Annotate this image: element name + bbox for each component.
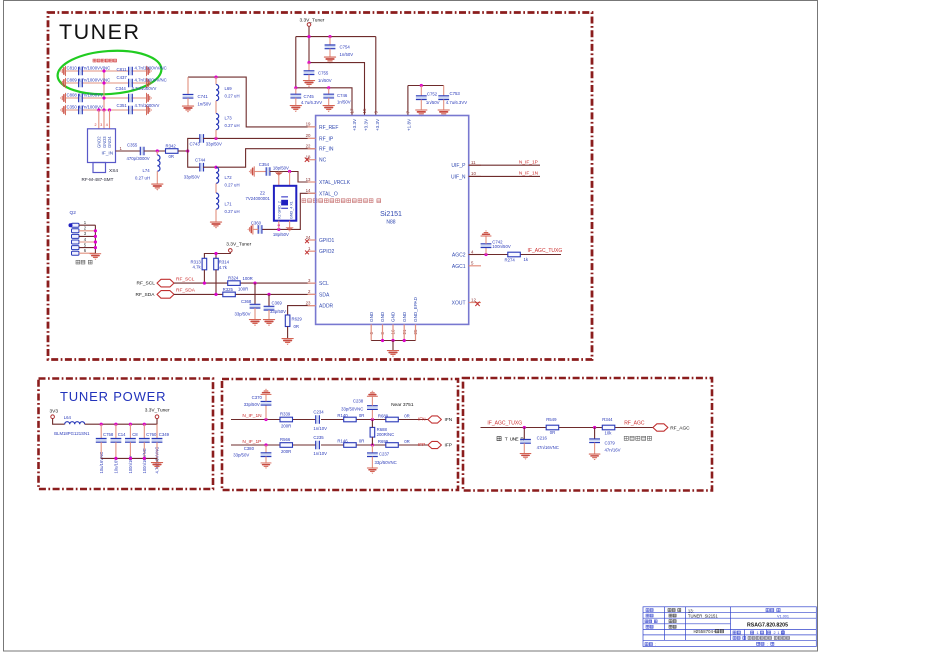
wire X2 pin [278, 221, 280, 230]
svg-text:1k: 1k [524, 257, 529, 262]
junction [214, 76, 217, 79]
junction [327, 86, 330, 89]
svg-text:R140: R140 [337, 413, 348, 418]
svg-text:N_IF_1P: N_IF_1P [519, 159, 538, 165]
svg-text:5: 5 [471, 261, 474, 266]
svg-text:R342: R342 [166, 143, 177, 148]
svg-text:C237: C237 [379, 451, 390, 456]
wire X1 pin [289, 172, 291, 186]
capacitor C369 [268, 294, 270, 306]
wire cap row 4 [66, 109, 146, 111]
svg-text:R629: R629 [292, 316, 303, 321]
resistor R344 [602, 425, 615, 430]
svg-text:UIF_P: UIF_P [451, 163, 466, 169]
svg-text:3: 3 [100, 123, 102, 127]
svg-text:33p/50VNC: 33p/50VNC [375, 460, 397, 465]
capacitor C237 [371, 445, 373, 453]
svg-text:IF_AGC_TUXG: IF_AGC_TUXG [487, 420, 522, 426]
svg-text:L72: L72 [225, 175, 233, 180]
capacitor C746 [328, 88, 330, 94]
ground C379 [589, 454, 600, 460]
svg-text:4.7k: 4.7k [193, 264, 202, 269]
svg-text:33p/50V: 33p/50V [233, 453, 249, 458]
svg-text:L69: L69 [225, 86, 233, 91]
ground C370 inverted [261, 389, 271, 395]
inductor L73 [216, 114, 219, 130]
svg-text:R566: R566 [280, 437, 291, 442]
ground left row 3 [60, 93, 65, 103]
svg-text:E: E [515, 437, 518, 443]
ground C380 [261, 463, 271, 469]
svg-text:3.3V_Tuner: 3.3V_Tuner [226, 242, 251, 248]
svg-text:R699: R699 [378, 439, 389, 444]
junction [97, 108, 100, 111]
svg-text:C811: C811 [117, 67, 128, 72]
ground right row 3 [147, 93, 152, 103]
svg-text::: : [767, 642, 768, 646]
svg-text:33p/50V: 33p/50V [235, 312, 251, 317]
svg-text:4: 4 [84, 237, 87, 242]
ground C746 [323, 106, 334, 112]
junction [143, 457, 146, 460]
ground C754 [324, 57, 335, 63]
title block stage [733, 631, 740, 634]
note shield [76, 260, 92, 264]
junction [264, 443, 267, 446]
svg-text:470p/3000V: 470p/3000V [127, 156, 150, 161]
capacitor C808 [79, 94, 83, 103]
ground C755 [303, 81, 314, 87]
junction [278, 224, 280, 226]
connector Q2 pin 4 [72, 240, 80, 244]
svg-text:IFP: IFP [418, 442, 425, 448]
svg-text:N_IF_1P: N_IF_1P [242, 439, 261, 445]
wire 3.3V vertical [308, 26, 310, 62]
wire C744 to chip [203, 149, 316, 168]
junction [114, 423, 117, 426]
resistor R324 [228, 281, 241, 286]
junction [129, 423, 132, 426]
svg-text:RF_SDA: RF_SDA [136, 292, 156, 298]
svg-text:RF_SCL: RF_SCL [137, 281, 156, 287]
capacitor C741 [187, 77, 189, 94]
connector Q2 pin 1 [72, 223, 80, 227]
junction [288, 170, 291, 173]
capacitor C752 [420, 86, 422, 96]
svg-text:1: 1 [84, 220, 87, 225]
svg-text:200R/NC: 200R/NC [377, 432, 395, 437]
svg-text:RF_AGC: RF_AGC [670, 426, 690, 432]
wire power bus [85, 419, 157, 425]
svg-text:0R: 0R [404, 413, 410, 418]
svg-text:R325: R325 [223, 287, 234, 292]
resistor R629 [285, 315, 290, 327]
svg-text:2: 2 [774, 631, 776, 635]
svg-text:IFN: IFN [418, 417, 426, 423]
junction [214, 293, 217, 296]
svg-text:C760: C760 [146, 432, 157, 437]
svg-text:C235: C235 [313, 435, 324, 440]
junction [129, 457, 132, 460]
svg-text:4: 4 [471, 249, 474, 254]
ground C369 [263, 320, 274, 326]
port IFP [428, 441, 442, 448]
svg-text:RSAG7.820.8205: RSAG7.820.8205 [747, 622, 788, 628]
power node circle [51, 415, 55, 419]
capacitor C810 [79, 67, 83, 76]
svg-text:RF_IN: RF_IN [319, 147, 334, 153]
svg-text:15: 15 [362, 108, 367, 113]
wire N_IF_1N [231, 419, 280, 421]
svg-text:1n/10V: 1n/10V [313, 451, 327, 456]
junction [253, 282, 256, 285]
svg-text:200R: 200R [281, 424, 291, 429]
inductor L74 [156, 151, 158, 155]
svg-text:RF_SCL: RF_SCL [176, 276, 195, 282]
resistor R140 [344, 417, 357, 422]
junction [214, 137, 217, 140]
ground chip [387, 351, 398, 357]
svg-text:IF_AGC_TUXG: IF_AGC_TUXG [528, 248, 563, 254]
svg-text:GND: GND [380, 311, 385, 322]
svg-text:GND: GND [402, 311, 407, 322]
svg-text:10: 10 [471, 171, 476, 176]
junction [102, 96, 105, 99]
ground C741 [182, 106, 193, 112]
svg-text:1n/50V: 1n/50V [337, 100, 351, 105]
capacitor C370 [265, 405, 267, 420]
ground C742 inverted [481, 230, 491, 236]
svg-text:Z2: Z2 [260, 190, 266, 195]
svg-text:10u/16V: 10u/16V [114, 458, 119, 474]
junction [102, 69, 105, 72]
svg-text:10k: 10k [605, 430, 613, 435]
svg-text:4.7k: 4.7k [219, 265, 228, 270]
svg-text:C808 4.7n/1000VV: C808 4.7n/1000VV [67, 93, 103, 98]
svg-text:100n/50V: 100n/50V [492, 244, 511, 249]
svg-text:14: 14 [306, 188, 311, 193]
resistor R566 [280, 443, 293, 448]
svg-text:1: 1 [777, 631, 779, 635]
junction [94, 235, 97, 238]
junction [420, 84, 423, 87]
wire SDA [174, 293, 223, 295]
svg-text:UIF_N: UIF_N [451, 174, 466, 180]
svg-text:5: 5 [84, 242, 87, 247]
svg-text:L74: L74 [143, 168, 151, 173]
svg-text:19: 19 [306, 122, 311, 127]
junction [307, 35, 310, 38]
resistor R699 [386, 443, 399, 448]
svg-text:RF-M-487-SMT: RF-M-487-SMT [82, 177, 114, 182]
svg-text:GND: GND [391, 311, 396, 322]
svg-text:C354: C354 [259, 162, 270, 167]
junction [277, 228, 280, 231]
capacitor C811 [129, 67, 133, 76]
wire R688 [371, 420, 373, 428]
svg-text:Q2: Q2 [70, 210, 77, 216]
wire AGC2 [469, 254, 508, 256]
no-connect GPIO1 [305, 239, 309, 243]
svg-text:1: 1 [757, 631, 759, 635]
port RF_AGC [653, 424, 668, 431]
svg-text::: : [655, 643, 656, 647]
wire UIF_N [469, 175, 540, 177]
svg-text:0.27 uH: 0.27 uH [225, 123, 240, 128]
svg-text:0R: 0R [169, 154, 175, 159]
svg-text:R549: R549 [546, 417, 557, 422]
svg-text:4.7n/1000VV: 4.7n/1000VV [132, 86, 157, 91]
svg-text:1: 1 [120, 146, 123, 151]
svg-text:2: 2 [308, 289, 311, 294]
svg-text:0R: 0R [550, 430, 556, 435]
svg-text:N_IF_1N: N_IF_1N [519, 171, 539, 177]
capacitor C354 [259, 162, 289, 176]
wire power gnd bus [101, 457, 157, 459]
svg-text:RF_IP: RF_IP [319, 136, 334, 142]
wire SCL [174, 282, 228, 284]
svg-text:20: 20 [306, 133, 311, 138]
wire RF_IP branch [188, 138, 200, 151]
note keep four capacitors [93, 59, 117, 62]
capacitor C753 [443, 86, 445, 96]
capacitor C350 [79, 106, 83, 115]
junction [307, 61, 310, 64]
svg-text:C379: C379 [605, 441, 616, 446]
svg-text:C368: C368 [241, 299, 252, 304]
svg-text:7V24000001: 7V24000001 [246, 196, 271, 201]
svg-text:+1.8V: +1.8V [407, 118, 412, 131]
wire center column [103, 71, 105, 110]
note near main chip [624, 436, 651, 440]
svg-text:RF_SDA: RF_SDA [176, 288, 196, 294]
junction [114, 457, 117, 460]
wire to XS4 [98, 110, 100, 129]
junction [94, 246, 97, 249]
capacitor C755 [308, 63, 310, 71]
no-connect GPIO2 [305, 251, 309, 255]
junction [523, 426, 526, 429]
svg-text:IFP: IFP [445, 443, 452, 449]
power node circle [307, 23, 311, 27]
ground C238 inverted [367, 391, 377, 397]
svg-text:C355: C355 [127, 143, 138, 148]
svg-text:0.27 uH: 0.27 uH [135, 176, 150, 181]
svg-text:33p/50VNC: 33p/50VNC [341, 406, 363, 411]
svg-text:GND_4 X1: GND_4 X1 [290, 201, 294, 219]
wire ADDR [288, 306, 316, 315]
capacitor C8 [129, 424, 131, 438]
svg-text:ADDR: ADDR [319, 304, 334, 310]
wire C743 to chip [203, 137, 316, 139]
wire gnd stub [392, 341, 394, 351]
ground C360 [247, 225, 252, 235]
connector Q2 pin 2 [72, 229, 80, 233]
ground right row 2 [147, 78, 152, 88]
capacitor C14 [115, 424, 117, 438]
wire 15 bus [309, 63, 365, 116]
svg-text:GND: GND [369, 311, 374, 322]
resistor R274 [508, 252, 521, 257]
ground power [151, 463, 162, 469]
svg-text:13: 13 [306, 177, 311, 182]
svg-text:L71: L71 [225, 202, 233, 207]
wire cap row 2 [66, 82, 146, 84]
svg-text:C746: C746 [337, 93, 348, 98]
svg-text:33p/50V: 33p/50V [184, 174, 200, 179]
svg-text:0R: 0R [294, 324, 300, 329]
junction [214, 252, 217, 255]
svg-text:+3.3V: +3.3V [375, 118, 380, 131]
svg-text:C744: C744 [195, 158, 206, 163]
svg-text:SCL: SCL [319, 281, 329, 287]
capacitor C349 [156, 424, 158, 438]
wire 1.8V bus [408, 85, 444, 87]
svg-text:V1.001: V1.001 [777, 614, 789, 618]
svg-text:RF_AGC: RF_AGC [624, 420, 645, 426]
junction [371, 418, 374, 421]
title block code [694, 629, 724, 634]
svg-text:3.3V_Tuner: 3.3V_Tuner [145, 407, 170, 413]
capacitor C744 [184, 158, 206, 180]
svg-text:XTAL_I/RCLK: XTAL_I/RCLK [319, 180, 351, 186]
svg-text:C8: C8 [132, 432, 138, 437]
svg-text:C809 4.7n/1000VV/NC: C809 4.7n/1000VV/NC [67, 78, 111, 83]
svg-text:TUNER_Si2151: TUNER_Si2151 [688, 614, 718, 619]
svg-text:C370: C370 [252, 395, 263, 400]
capacitor C360 [251, 221, 289, 237]
junction [264, 418, 267, 421]
svg-text:C758: C758 [103, 432, 114, 437]
svg-text:3: 3 [308, 278, 311, 283]
svg-text:6: 6 [84, 248, 87, 253]
svg-text:C753: C753 [450, 91, 461, 96]
svg-text:47n/16VNC: 47n/16VNC [537, 445, 559, 450]
junction [143, 423, 146, 426]
svg-text:4.7n/1000VV: 4.7n/1000VV [135, 103, 160, 108]
ground L71 [210, 222, 221, 228]
wire to C745 bus [295, 37, 297, 88]
inductor L64 [65, 422, 85, 425]
svg-text:100n/16V/NC: 100n/16V/NC [142, 448, 147, 473]
svg-text:2: 2 [84, 226, 87, 231]
svg-text:GPIO1: GPIO1 [319, 238, 335, 244]
svg-text:C752: C752 [427, 92, 438, 97]
resistor R549 [546, 425, 559, 430]
junction [102, 81, 105, 84]
svg-text:4.7n/1000VV/NC: 4.7n/1000VV/NC [135, 78, 167, 83]
svg-text:L64: L64 [64, 415, 72, 420]
svg-text:L73: L73 [225, 116, 233, 121]
svg-text:4.7u/6.3VV: 4.7u/6.3VV [446, 100, 467, 105]
wire RF_IN branch [188, 151, 200, 167]
svg-text:R146: R146 [337, 439, 348, 444]
svg-text:22: 22 [306, 144, 311, 149]
svg-text:C351: C351 [117, 103, 128, 108]
connector Q2 pin 5 [72, 246, 80, 250]
ground C216 [520, 454, 531, 460]
capacitor C216 [523, 428, 525, 440]
AGC block border [463, 378, 712, 491]
resistor R688 [370, 427, 375, 437]
junction [294, 86, 297, 89]
svg-text:0.27 uH: 0.27 uH [225, 183, 240, 188]
svg-text:24: 24 [306, 235, 311, 240]
svg-text:AGC2: AGC2 [452, 253, 466, 259]
svg-text:0.27 uH: 0.27 uH [225, 209, 240, 214]
svg-text:R344: R344 [602, 417, 613, 422]
junction [94, 240, 97, 243]
wire R629 gnd [287, 327, 289, 339]
capacitor C379 [594, 428, 596, 439]
note near tuner [497, 437, 524, 443]
junction [267, 293, 270, 296]
ground C354 [249, 167, 254, 177]
connector Q2 pin 3 [72, 234, 80, 238]
svg-text:IF_IN: IF_IN [102, 151, 114, 157]
svg-text:XTAL_O: XTAL_O [319, 191, 338, 197]
resistor R325 [223, 292, 236, 297]
wire 3V3 [53, 419, 65, 425]
junction [94, 229, 97, 232]
junction [381, 339, 384, 342]
wire R342 out [178, 150, 188, 152]
svg-text:C238: C238 [353, 398, 364, 403]
resistor R689 [386, 417, 399, 422]
svg-text:17: 17 [350, 108, 355, 113]
svg-text:0R: 0R [404, 439, 410, 444]
wire cap row 3 [66, 97, 146, 99]
svg-text:2: 2 [95, 123, 97, 127]
capacitor C758 [100, 424, 102, 438]
wire R313 to SCL [203, 270, 205, 283]
capacitor C743 [190, 134, 222, 146]
ground right row 4 [147, 105, 152, 115]
svg-text:C349: C349 [159, 432, 170, 437]
svg-text:3: 3 [84, 231, 87, 236]
svg-text:C380: C380 [244, 446, 255, 451]
wire UIF_P [469, 164, 540, 166]
junction [214, 166, 217, 169]
resistor R339 [280, 417, 293, 422]
junction [186, 149, 189, 152]
ground left row 1 [60, 66, 65, 76]
svg-text:100R: 100R [238, 287, 248, 292]
svg-text:23: 23 [306, 300, 311, 305]
wire RF_REF bus [188, 77, 316, 127]
svg-text:47n/16V: 47n/16V [605, 447, 621, 452]
connector Q2 pin 6 [72, 251, 80, 255]
capacitor C235 [313, 435, 327, 456]
svg-text:R339: R339 [280, 412, 291, 417]
svg-text:C216: C216 [537, 435, 548, 440]
svg-text:1n/50V: 1n/50V [426, 100, 440, 105]
wire R314 to SDA [215, 270, 217, 295]
capacitor C809 [79, 79, 83, 88]
junction [593, 426, 596, 429]
svg-text:C741: C741 [198, 94, 209, 99]
svg-text:GND_EPAD: GND_EPAD [413, 296, 418, 322]
svg-text:GND4: GND4 [107, 136, 112, 148]
IF block border [222, 379, 458, 490]
svg-text:N_IF_1N: N_IF_1N [242, 413, 262, 419]
capacitor C351 [129, 106, 133, 115]
inductor L72 [216, 167, 219, 183]
svg-text:4.7n/1000VV/NC: 4.7n/1000VV/NC [135, 66, 167, 71]
junction [102, 108, 105, 111]
title block row labels [646, 609, 653, 612]
svg-text:XOUT: XOUT [452, 301, 466, 307]
